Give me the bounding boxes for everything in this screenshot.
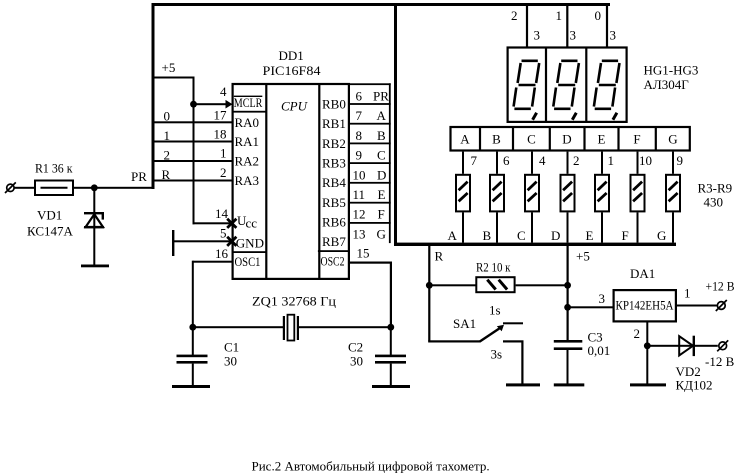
pin OSC2 cell line: [318, 250, 350, 252]
display comma HG1: [533, 113, 537, 120]
svg-text:VD1: VD1: [37, 208, 62, 223]
svg-text:RB7: RB7: [322, 234, 346, 249]
resistor R5: [525, 175, 539, 212]
svg-text:12: 12: [353, 207, 366, 222]
svg-text:1: 1: [684, 286, 691, 301]
svg-text:5: 5: [220, 226, 227, 241]
svg-text:3: 3: [570, 28, 577, 43]
svg-text:R2 10 к: R2 10 к: [476, 260, 511, 275]
wire segF upper: [637, 152, 639, 174]
wire segG upper: [672, 152, 674, 174]
pin OSC1 cell line: [232, 251, 267, 253]
resistor R8: [631, 175, 645, 212]
svg-text:9: 9: [356, 148, 363, 163]
ground VD1: [81, 265, 109, 268]
IC DA1 box: [614, 290, 676, 321]
svg-text:B: B: [377, 128, 386, 143]
svg-text:B: B: [492, 132, 501, 147]
wire row R pin 2: [152, 180, 232, 182]
wire R to R2: [429, 284, 476, 286]
svg-text:GND: GND: [236, 236, 264, 251]
svg-text:6: 6: [503, 153, 510, 168]
display digit HG1: [514, 61, 540, 109]
svg-text:18: 18: [214, 127, 227, 142]
svg-text:1s: 1s: [489, 303, 501, 318]
resistor R7: [595, 175, 609, 212]
svg-text:-12 В: -12 В: [705, 354, 735, 369]
wire segG lower: [672, 212, 674, 242]
svg-text:АЛ304Г: АЛ304Г: [644, 77, 690, 92]
svg-text:2: 2: [634, 326, 641, 341]
svg-text:cc: cc: [246, 216, 258, 231]
wire digit select 1: [566, 6, 568, 47]
display digit HG3: [594, 61, 620, 109]
wire +5 corner into pin column: [152, 77, 195, 79]
wire R drop from bus: [428, 246, 430, 341]
ground SA1: [506, 383, 540, 386]
wire segB upper: [496, 152, 498, 174]
wire segA upper: [462, 152, 464, 174]
switch SA1 throw 1s: [503, 322, 523, 324]
wire segD upper: [567, 152, 569, 174]
svg-text:PR: PR: [373, 89, 389, 104]
wire +5 bottom bus: [394, 243, 676, 246]
svg-text:E: E: [586, 228, 594, 243]
wire DA1 pin 2: [646, 322, 648, 385]
switch SA1 throw 3s: [503, 340, 524, 342]
terminal +12: [716, 300, 727, 311]
wire segC upper: [531, 152, 533, 174]
svg-text:RA2: RA2: [235, 154, 260, 169]
wire VD2: [647, 345, 718, 347]
wire segB lower: [496, 212, 498, 242]
svg-text:Рис.2 Автомобильный цифровой т: Рис.2 Автомобильный цифровой тахометр.: [252, 459, 490, 474]
svg-text:RB1: RB1: [322, 116, 346, 131]
svg-text:R1 36 к: R1 36 к: [35, 161, 73, 176]
svg-text:RA3: RA3: [235, 173, 260, 188]
svg-text:10: 10: [639, 153, 652, 168]
svg-text:1: 1: [608, 153, 615, 168]
svg-text:1: 1: [556, 8, 563, 23]
wire row 1 pin 18: [152, 141, 232, 143]
svg-text:F: F: [378, 207, 385, 222]
display comma HG3: [613, 113, 617, 120]
wire row 0 pin 17: [152, 121, 232, 123]
resistor R4: [490, 175, 504, 212]
svg-text:MCLR: MCLR: [234, 95, 263, 110]
svg-text:3s: 3s: [491, 347, 503, 362]
svg-text:4: 4: [220, 84, 227, 99]
switch SA1 arrowhead: [497, 325, 504, 332]
svg-text:R3-R9: R3-R9: [698, 181, 733, 196]
svg-text:SA1: SA1: [453, 316, 476, 331]
svg-text:3: 3: [534, 28, 541, 43]
IC DD1 PIC16F84 box: [233, 84, 349, 279]
svg-text:1: 1: [164, 128, 171, 143]
svg-text:RB6: RB6: [322, 215, 346, 230]
svg-text:RB2: RB2: [322, 136, 346, 151]
svg-text:E: E: [378, 187, 386, 202]
svg-text:F: F: [633, 132, 640, 147]
terminal input: [5, 182, 16, 193]
svg-text:OSC1: OSC1: [235, 254, 261, 269]
svg-text:3: 3: [599, 291, 606, 306]
svg-text:C1: C1: [224, 340, 239, 355]
ground DA1: [630, 383, 666, 386]
wire pin-number column vertical: [193, 77, 195, 225]
svg-text:1: 1: [220, 146, 227, 161]
junction dot R2 +5: [564, 282, 571, 289]
junction dot C1: [189, 324, 196, 331]
wire R2 to +5 drop: [516, 284, 568, 286]
resistor R3: [456, 175, 470, 212]
wire pin 15 OSC2: [350, 262, 391, 264]
wire digit select 2: [526, 6, 528, 47]
wire digit select 0: [606, 6, 608, 47]
crystal ZQ1: [283, 315, 299, 341]
segment box A-G: [451, 127, 690, 151]
svg-text:RB5: RB5: [322, 195, 346, 210]
resistor R6: [561, 175, 575, 212]
svg-text:RB4: RB4: [322, 175, 346, 190]
svg-text:F: F: [622, 228, 629, 243]
svg-text:D: D: [562, 132, 571, 147]
svg-text:RA0: RA0: [235, 115, 260, 130]
capacitor C2: [375, 328, 406, 385]
svg-text:C2: C2: [348, 340, 363, 355]
svg-text:RB0: RB0: [322, 97, 346, 112]
svg-text:4: 4: [539, 153, 546, 168]
display digit HG2: [553, 61, 579, 109]
wire DA1 pin 1: [677, 305, 717, 307]
pin 4 arrowhead: [226, 100, 233, 109]
svg-text:G: G: [377, 226, 386, 241]
svg-text:E: E: [598, 132, 606, 147]
wire OSC1 vertical: [192, 261, 194, 328]
svg-text:D: D: [377, 167, 386, 182]
resistor R2: [476, 277, 514, 292]
svg-text:+5: +5: [576, 249, 590, 264]
resistor R9: [666, 175, 680, 212]
switch SA1 blade: [480, 327, 502, 341]
svg-text:14: 14: [215, 206, 229, 221]
svg-text:КС147А: КС147А: [27, 224, 74, 239]
wire segA lower: [462, 212, 464, 242]
svg-text:+5: +5: [162, 60, 176, 75]
pin MCLR cell line: [232, 111, 267, 113]
svg-text:КД102: КД102: [676, 378, 713, 393]
svg-text:9: 9: [677, 153, 684, 168]
svg-text:2: 2: [164, 148, 171, 163]
svg-text:RA1: RA1: [235, 134, 260, 149]
junction dot R1 VD1: [91, 184, 98, 191]
junction dot C2: [387, 324, 394, 331]
svg-text:CPU: CPU: [281, 99, 309, 114]
wire segC lower: [531, 212, 533, 242]
wire segD lower: [567, 212, 569, 242]
wire SA1 common: [428, 340, 481, 342]
ground C2: [372, 385, 410, 388]
svg-text:A: A: [448, 228, 458, 243]
svg-text:B: B: [483, 228, 492, 243]
wire +5 left vertical: [152, 3, 155, 189]
junction dot R R2: [426, 282, 433, 289]
capacitor C3: [554, 340, 583, 384]
capacitor C1: [177, 328, 208, 385]
svg-text:30: 30: [224, 354, 237, 369]
svg-text:10: 10: [353, 167, 366, 182]
svg-text:R: R: [162, 167, 171, 182]
svg-text:15: 15: [357, 246, 370, 261]
wire to pin 4 MCLR: [194, 103, 227, 105]
svg-text:0: 0: [164, 109, 171, 124]
svg-text:0: 0: [595, 8, 602, 23]
svg-text:RB3: RB3: [322, 156, 346, 171]
svg-text:11: 11: [353, 187, 366, 202]
svg-text:PIC16F84: PIC16F84: [263, 63, 322, 78]
svg-text:ZQ1 32768 Гц: ZQ1 32768 Гц: [252, 294, 336, 309]
wire pin 14 Ucc: [193, 222, 231, 224]
ground C3: [554, 383, 585, 386]
wire row 2 pin 1: [152, 160, 232, 162]
svg-text:R: R: [435, 249, 444, 264]
chassis ground stub: [172, 230, 174, 256]
wire 3s to ground: [521, 341, 523, 384]
svg-text:HG1-HG3: HG1-HG3: [644, 63, 699, 78]
svg-text:0,01: 0,01: [588, 343, 611, 358]
svg-text:A: A: [377, 108, 387, 123]
svg-text:C: C: [527, 132, 536, 147]
resistor R1: [35, 181, 73, 196]
svg-text:6: 6: [356, 89, 363, 104]
wire input to R1: [15, 187, 35, 189]
terminal -12: [717, 340, 728, 351]
right pin box grid: [350, 83, 391, 243]
zener diode VD1: [84, 188, 104, 266]
svg-text:16: 16: [215, 246, 229, 261]
wire +5 top rail: [152, 3, 611, 6]
X mark pin 14: [227, 219, 236, 228]
svg-text:OSC2: OSC2: [321, 254, 345, 269]
svg-text:7: 7: [356, 108, 363, 123]
wire R1 to chip PR: [73, 187, 152, 189]
wire pin 5 GND: [173, 240, 230, 242]
svg-text:G: G: [668, 132, 677, 147]
wire OSC2 vertical: [390, 262, 392, 329]
svg-text:C: C: [517, 228, 526, 243]
svg-text:3: 3: [610, 28, 617, 43]
ground C1: [172, 385, 210, 388]
svg-text:C: C: [377, 148, 386, 163]
diode VD2: [679, 336, 695, 356]
wire segE lower: [601, 212, 603, 242]
svg-text:2: 2: [220, 165, 227, 180]
svg-text:13: 13: [353, 226, 366, 241]
svg-text:8: 8: [356, 128, 363, 143]
wire +5 right thick vertical: [394, 3, 397, 246]
display comma HG2: [572, 113, 576, 120]
svg-text:КР142ЕН5А: КР142ЕН5А: [616, 298, 675, 313]
svg-text:430: 430: [704, 195, 724, 210]
svg-text:A: A: [460, 132, 470, 147]
svg-text:DD1: DD1: [279, 48, 304, 63]
svg-text:PR: PR: [131, 169, 147, 184]
wire pin 16 OSC1: [193, 261, 233, 263]
wire segF lower: [637, 212, 639, 242]
svg-text:D: D: [551, 228, 560, 243]
wire segE upper: [601, 152, 603, 174]
svg-text:DA1: DA1: [630, 266, 655, 281]
svg-text:7: 7: [471, 153, 478, 168]
junction dot DA1 in: [564, 304, 571, 311]
svg-text:30: 30: [350, 354, 363, 369]
svg-text:+12 В: +12 В: [706, 279, 735, 294]
X mark pin 5: [227, 237, 236, 246]
wire +5 drop: [567, 246, 569, 340]
junction dot pin4: [190, 101, 197, 108]
svg-text:G: G: [657, 228, 666, 243]
wire OSC1 to crystal: [193, 326, 285, 328]
svg-text:17: 17: [214, 108, 228, 123]
display block HG1-HG3 outline: [508, 48, 627, 122]
wire crystal to OSC2: [299, 326, 391, 328]
svg-text:2: 2: [573, 153, 580, 168]
wire to DA1 pin 3: [568, 306, 613, 308]
junction dot VD2: [644, 342, 651, 349]
svg-text:2: 2: [511, 8, 518, 23]
